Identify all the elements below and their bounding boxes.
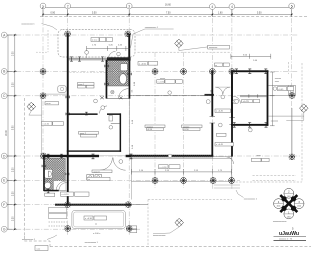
svg-text:x -0.10: x -0.10 [43, 124, 50, 126]
svg-text:x +0.30: x +0.30 [85, 218, 93, 220]
svg-text:(10): (10) [277, 206, 281, 208]
roof dashed rect bottom-center horizontal [148, 199, 232, 201]
bathroom 1 door arc [119, 89, 129, 99]
column marker col3/rowG [126, 226, 132, 232]
roof overhang dashed line top [138, 52, 303, 246]
wall column 4A [231, 70, 233, 117]
wall top row1 north (window wall) [69, 58, 107, 60]
grid line column 2 [67, 9, 69, 236]
right room entry door arc [233, 96, 240, 103]
right room right wall [267, 70, 269, 126]
property boundary jog bottom-left [24, 236, 50, 247]
circled tag corridor mid [218, 123, 222, 127]
terrace dashed rounded rectangle top-left [58, 30, 135, 58]
svg-text:5.50: 5.50 [13, 125, 15, 130]
porch bottom tag [84, 216, 107, 220]
circled tag room3 door [119, 160, 123, 164]
dashed vertical above right steps [288, 62, 290, 74]
grid bubble C [1, 93, 7, 99]
window frame T ticks room1 north [70, 57, 104, 61]
circled tag left of bathroom1 bottom [94, 99, 98, 103]
svg-text:4: 4 [211, 5, 213, 9]
svg-text:xxxxxxxxxxxxx: xxxxxxxxxxxxx [273, 221, 287, 223]
svg-text:xxxxxxxxxxx 1: xxxxxxxxxxx 1 [244, 198, 258, 200]
wall column 3 upper vertical [128, 34, 130, 61]
svg-text:2.20: 2.20 [13, 167, 15, 172]
svg-text:x +0.50: x +0.50 [158, 82, 166, 84]
circled mark on beam line [168, 91, 172, 95]
double door arcs room3 [100, 158, 113, 171]
circled tag corridor doors [221, 95, 225, 99]
svg-text:xxxxxx: xxxxxx [183, 126, 190, 128]
T ticks row D wall [92, 154, 95, 159]
svg-text:x 4.00 x: x 4.00 x [93, 233, 101, 235]
grid bubble 4 [209, 4, 215, 10]
tag terrace top [91, 38, 112, 42]
left thin edge lines near bathroom2 [41, 96, 43, 155]
right room dimension line [231, 54, 271, 59]
wall row y151 [67, 150, 121, 151]
svg-text:xxxxxxxxxxxx: xxxxxxxxxxxx [153, 235, 166, 237]
bathroom2 door arc [59, 183, 67, 191]
junction cross marks bathroom1 bottom [100, 96, 122, 99]
right room window line row C [240, 94, 267, 98]
svg-text:2.20: 2.20 [13, 82, 15, 87]
T ticks col2 wall [66, 96, 88, 116]
bathroom2 bottom wall [44, 190, 59, 192]
column marker col4/rowB [210, 69, 216, 75]
svg-text:2.20: 2.20 [13, 191, 15, 196]
diamond marker left [27, 102, 36, 111]
svg-text:3.30: 3.30 [13, 51, 15, 56]
column marker col1/rowC [40, 93, 46, 99]
svg-text:2.20: 2.20 [13, 216, 15, 221]
right room top wall [231, 70, 268, 72]
svg-text:uJauWu: uJauWu [279, 231, 299, 237]
sink bathroom 1 [120, 64, 127, 71]
grid line row A [7, 34, 298, 36]
svg-text:xxxxxxxxxxx 1: xxxxxxxxxxx 1 [85, 242, 99, 244]
roof dashed line bottom-right horizontal [232, 181, 302, 183]
column marker i1/rowB [152, 69, 158, 75]
door arc room1 south [100, 106, 108, 114]
bottom-left porch rounded rect [72, 210, 126, 228]
grid line row G [7, 228, 140, 230]
circled tag on room1 north wall [85, 51, 89, 55]
svg-text:4: 4 [231, 5, 233, 9]
tag below top wall col3 [138, 62, 158, 66]
grid line row F [7, 204, 140, 206]
column marker col1/rowB [40, 69, 46, 75]
svg-text:x +0.10: x +0.10 [62, 194, 70, 196]
left dimension ticks [14, 34, 15, 230]
bathroom 2 door white area [54, 181, 66, 191]
svg-text:16.60: 16.60 [165, 4, 171, 6]
svg-text:2: 2 [67, 4, 69, 8]
svg-text:7.50: 7.50 [166, 12, 171, 14]
right steps [268, 86, 295, 96]
tag texts for density [37, 63, 285, 250]
hatched north wall of bathroom 1 [107, 57, 131, 60]
grid bubble F [1, 202, 7, 208]
central room tag 1 [145, 125, 165, 131]
tags below row F wall [61, 192, 90, 196]
svg-text:3: 3 [128, 4, 130, 8]
svg-text:16.00: 16.00 [6, 130, 8, 136]
svg-text:xxxxxxxxxxx 1: xxxxxxxxxxx 1 [21, 24, 35, 26]
tag left outside 1 [42, 122, 64, 126]
circled tag on row D wall [168, 154, 172, 158]
top dimension ticks [42, 7, 292, 15]
roof dashed lines right side [253, 174, 297, 176]
column marker i1/rowE [152, 178, 158, 184]
right room outer dimension line [270, 72, 275, 126]
column marker col5/rowD [289, 154, 295, 160]
leader from right diamond [286, 113, 304, 121]
svg-text:xxxxxxxx: xxxxxxxx [209, 47, 218, 49]
bottom-left corner tag [35, 246, 48, 251]
terrace door arc [109, 51, 116, 58]
double door arcs corridor top [215, 87, 222, 94]
svg-text:0.90: 0.90 [51, 12, 56, 14]
column marker col2/rowA [65, 31, 71, 37]
grid line intermediate column i2 [183, 52, 185, 188]
column marker col5/rowC [289, 93, 295, 99]
grid line intermediate column i1 [154, 52, 156, 188]
leader from bottom diamond to label [153, 227, 179, 234]
bathroom1 right wall (col3) [129, 60, 131, 99]
wall column 4 [211, 70, 213, 116]
tag room1 [78, 83, 95, 89]
door jamb ticks corridor [210, 117, 235, 125]
corridor tags [215, 109, 234, 146]
wall column 2 vertical [67, 34, 69, 206]
bottom porch center outline [131, 157, 231, 181]
bathroom2 left wall [43, 155, 45, 191]
corridor circled tags [206, 100, 210, 104]
porch steps right [214, 185, 240, 188]
bathroom1 left wall [106, 60, 108, 99]
bathroom 1 bottom line [106, 98, 130, 100]
central room tag 2 [182, 125, 203, 131]
grid bubble 3 [126, 3, 132, 9]
hatched bathroom 2 [44, 158, 66, 191]
closet vertical wall [120, 113, 122, 151]
small dashed marks left of terrace [47, 30, 49, 52]
toilet bathroom 1 [119, 74, 126, 84]
svg-text:+0.475: +0.475 [243, 101, 250, 103]
svg-text:+0.50: +0.50 [147, 129, 153, 131]
column marker col4A/rowB [229, 69, 235, 75]
svg-text:1.60: 1.60 [218, 12, 223, 14]
grid bubble D [1, 153, 7, 159]
svg-text:5.50: 5.50 [257, 12, 262, 14]
grid line row C [7, 95, 240, 97]
svg-text:xxxx 2: xxxx 2 [80, 133, 87, 135]
grid line column 3 [128, 9, 130, 236]
column marker col3/rowA [125, 31, 131, 37]
round basin bathroom 2 [44, 182, 50, 188]
leader from left diamond [29, 111, 42, 115]
small stacked boxes left of porch steps [130, 226, 137, 233]
dimension tick slashes [14, 6, 293, 230]
left outside steps [49, 208, 67, 227]
room1 ceiling dashed line [70, 72, 106, 74]
grid line column 4 [211, 9, 213, 190]
svg-text:(10): (10) [287, 196, 291, 198]
wall row1 south y113.8 [67, 113, 98, 115]
T ticks bathroom2 walls [42, 154, 69, 193]
property boundary dashed line left [23, 98, 25, 236]
tag room3 [87, 170, 112, 181]
grid bubble G [1, 226, 7, 232]
svg-text:xxxxxx: xxxxxx [147, 126, 154, 128]
svg-text:xxxxxxxxxxx 1: xxxxxxxxxxx 1 [22, 239, 36, 241]
svg-text:+0.50: +0.50 [183, 129, 189, 131]
porch dimension line [131, 169, 231, 175]
right terrace vertical col5 line [291, 108, 293, 157]
column marker col2/rowG [65, 226, 71, 232]
column marker i2/rowB [181, 69, 187, 75]
grid bubble A [1, 32, 7, 38]
floor drain bathroom 1 [111, 90, 114, 93]
svg-text:x +0.45: x +0.45 [216, 111, 224, 113]
svg-text:xxxx 3: xxxx 3 [94, 171, 101, 173]
corridor top tag [215, 63, 230, 66]
grid bubble 4A [229, 4, 235, 10]
svg-text:G: G [3, 228, 6, 232]
right terrace horizontal edge [268, 115, 304, 117]
door arc corridor bottom [227, 157, 234, 164]
T column tick right room top wall [235, 69, 238, 74]
right room tag [235, 99, 239, 103]
svg-text:5.50: 5.50 [92, 12, 97, 14]
washer boxes beside bathroom2 [87, 175, 102, 181]
svg-text:xxxxxxx: xxxxxxx [271, 121, 279, 123]
diamond marker right [300, 104, 309, 113]
closet box [109, 116, 113, 122]
column marker col4/rowE [210, 178, 216, 184]
roof dashed rect bottom-center vertical [147, 200, 149, 247]
beam line row C central room [130, 94, 212, 96]
threshold line in row D door gap [99, 155, 126, 157]
column marker col4A/rowE [229, 178, 235, 184]
svg-text:+0.45: +0.45 [278, 89, 284, 91]
left dimension line outer total [7, 35, 17, 229]
beam end marks [205, 94, 214, 96]
column marker col1/rowD [41, 153, 47, 159]
svg-text:F: F [3, 203, 5, 207]
grid line row E [7, 179, 240, 181]
terrace dimension line [87, 46, 131, 51]
grid bubble 2 [65, 3, 71, 9]
grid line column 4A [231, 9, 233, 190]
wall row F bottom [55, 204, 132, 206]
circled tag closet [109, 126, 113, 130]
svg-text:x +0.30: x +0.30 [160, 167, 168, 169]
heavy wall row D [44, 155, 100, 157]
top dimension line total [43, 8, 292, 18]
right room bottom wall [231, 124, 268, 126]
right room left wall [231, 70, 233, 126]
closet jog line [111, 123, 120, 125]
circled window mark on top wall [117, 52, 121, 56]
T ticks bathroom1 walls [105, 65, 132, 86]
grid line column 5 [291, 9, 293, 110]
svg-text:(10): (10) [287, 217, 291, 219]
grid bubble B [1, 69, 7, 75]
toilet bathroom 2 [45, 169, 53, 178]
col3 thin line mid [128, 99, 130, 156]
grid bubble E [1, 178, 7, 184]
svg-text:x +0.50: x +0.50 [139, 63, 147, 65]
bathroom 2 door arc [56, 181, 65, 190]
svg-text:x +0.45: x +0.45 [216, 144, 224, 146]
thin extension row F [132, 204, 149, 206]
compass rose [274, 188, 304, 218]
dashed vertical right x302 [301, 63, 303, 182]
planter fixture left of col2 [58, 86, 66, 93]
circled tag room1 door [101, 106, 105, 110]
porch steps left edge line [131, 181, 133, 199]
tag left outside 2 [45, 102, 59, 105]
column marker i2/rowE [181, 178, 187, 184]
column marker col2/rowF [65, 202, 71, 208]
property boundary dashed line bottom [50, 246, 311, 248]
grid line row B [7, 70, 298, 72]
diamond marker bottom-center [175, 218, 184, 227]
svg-text:xxxxxx: xxxxxx [275, 78, 282, 80]
circled tag below right room wall [248, 128, 252, 132]
svg-text:(10): (10) [297, 206, 301, 208]
porch center tag [159, 165, 181, 169]
tag room2 [79, 132, 99, 138]
label box right of top diamond [208, 45, 230, 49]
grid bubble 5 [289, 3, 295, 9]
hatched bathroom 1 [107, 60, 128, 86]
diamond marker top-center [175, 39, 184, 48]
tag bathroom2 [45, 193, 55, 196]
svg-text:xxxx 1: xxxx 1 [78, 84, 85, 86]
column marker col3/rowF [125, 202, 131, 208]
leader from top diamond to label [179, 47, 208, 51]
grid line row D [7, 155, 300, 157]
